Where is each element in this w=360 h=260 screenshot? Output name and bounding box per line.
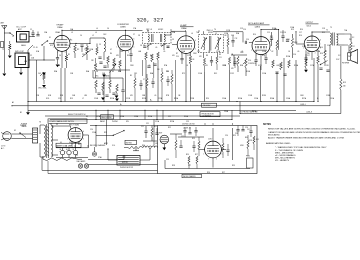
svg-text:C15: C15 xyxy=(279,65,282,67)
svg-text:T6: T6 xyxy=(39,122,41,124)
svg-text:117L7: 117L7 xyxy=(208,139,212,141)
svg-text:C4B: C4B xyxy=(72,95,75,97)
svg-text:R6: R6 xyxy=(150,55,152,57)
svg-text:R19: R19 xyxy=(70,98,73,100)
svg-text:R4: R4 xyxy=(110,53,112,55)
svg-text:R22B: R22B xyxy=(142,98,146,100)
svg-text:.005: .005 xyxy=(276,65,279,67)
svg-text:R23: R23 xyxy=(192,138,195,140)
svg-text:C11: C11 xyxy=(219,57,222,59)
svg-text:470: 470 xyxy=(172,55,175,57)
svg-text:150: 150 xyxy=(308,51,311,53)
svg-text:R7B: R7B xyxy=(166,95,169,97)
svg-text:B+: B+ xyxy=(120,104,122,106)
svg-text:R5: R5 xyxy=(127,55,129,57)
svg-text:R11: R11 xyxy=(262,55,265,57)
svg-text:47: 47 xyxy=(110,49,112,51)
svg-text:C30 R31 C31 R32: C30 R31 C31 R32 xyxy=(182,124,195,126)
svg-text:C15: C15 xyxy=(267,32,270,34)
svg-text:220: 220 xyxy=(82,54,85,56)
svg-text:L2: L2 xyxy=(92,35,94,37)
svg-text:CONTROL: CONTROL xyxy=(248,63,256,65)
svg-text:POWER: POWER xyxy=(20,125,27,127)
svg-text:C7: C7 xyxy=(143,79,145,81)
svg-text:C19: C19 xyxy=(58,98,61,100)
svg-text:R17: R17 xyxy=(324,51,327,53)
svg-text:L3: L3 xyxy=(71,32,73,34)
svg-text:C8B: C8B xyxy=(142,95,145,97)
svg-text:B.C. LOOP: B.C. LOOP xyxy=(17,26,27,28)
svg-text:C17: C17 xyxy=(299,32,302,34)
svg-text:C27: C27 xyxy=(188,165,191,167)
svg-text:C13: C13 xyxy=(240,28,243,30)
svg-text:R28: R28 xyxy=(172,165,175,167)
svg-text:.05: .05 xyxy=(154,95,156,97)
svg-text:C18: C18 xyxy=(322,28,325,30)
svg-text:455KC: 455KC xyxy=(158,29,164,31)
svg-text:C21: C21 xyxy=(141,126,144,128)
svg-text:40: 40 xyxy=(69,142,71,144)
svg-text:INDICATED.: INDICATED. xyxy=(268,134,281,137)
svg-text:R29: R29 xyxy=(232,165,235,167)
svg-text:68: 68 xyxy=(193,59,195,61)
svg-text:R21: R21 xyxy=(104,132,107,134)
svg-text:R14: R14 xyxy=(300,29,303,31)
svg-text:C9B: C9B xyxy=(166,71,169,73)
svg-text:R11B: R11B xyxy=(262,95,266,97)
svg-text:R12: R12 xyxy=(270,36,273,38)
svg-text:VOL: VOL xyxy=(112,145,115,147)
svg-text:R7: R7 xyxy=(176,53,178,55)
svg-text:.05: .05 xyxy=(297,51,299,53)
svg-text:C2B: C2B xyxy=(36,95,39,97)
svg-text:C21B: C21B xyxy=(126,98,130,100)
svg-text:R5: R5 xyxy=(130,75,132,77)
svg-text:1ST I-F: 1ST I-F xyxy=(146,29,153,31)
svg-text:C14: C14 xyxy=(246,39,249,41)
svg-text:C32: C32 xyxy=(247,129,250,131)
svg-text:.05: .05 xyxy=(155,47,157,49)
svg-text:C6B: C6B xyxy=(102,73,105,75)
svg-text:S1B: S1B xyxy=(48,95,51,97)
svg-text:326, 327: 326, 327 xyxy=(137,16,164,23)
svg-text:C12: C12 xyxy=(235,38,238,40)
svg-text:C25: C25 xyxy=(166,159,169,161)
svg-text:ABBREVIATIONS USED:: ABBREVIATIONS USED: xyxy=(266,142,291,145)
svg-text:C29: C29 xyxy=(168,116,171,118)
svg-text:S2: S2 xyxy=(52,127,54,129)
svg-text:C17: C17 xyxy=(307,55,310,57)
svg-text:L3B: L3B xyxy=(84,95,87,97)
svg-text:A.C.: A.C. xyxy=(1,147,5,150)
svg-text:PM SPKR: PM SPKR xyxy=(342,63,350,65)
svg-text:VOL: VOL xyxy=(248,60,251,62)
svg-text:MOTOR: MOTOR xyxy=(122,162,128,164)
svg-text:R13: R13 xyxy=(291,29,294,31)
svg-text:R2B: R2B xyxy=(60,95,63,97)
svg-text:C16: C16 xyxy=(283,32,286,34)
svg-text:C28: C28 xyxy=(249,140,252,142)
svg-text:220: 220 xyxy=(157,69,160,71)
svg-text:PHONO MOTOR: PHONO MOTOR xyxy=(120,167,134,169)
svg-text:C1: C1 xyxy=(30,29,32,31)
svg-text:12BA6: 12BA6 xyxy=(57,26,63,29)
svg-text:12BA6: 12BA6 xyxy=(181,27,187,30)
svg-text:C20: C20 xyxy=(90,129,93,131)
svg-text:RESISTOR VALUES ARE GIVEN IN O: RESISTOR VALUES ARE GIVEN IN OHMS UNLESS… xyxy=(268,127,356,130)
svg-text:A+: A+ xyxy=(150,99,152,102)
svg-text:C23: C23 xyxy=(186,121,189,123)
svg-text:C18B: C18B xyxy=(326,95,330,97)
svg-text:C9: C9 xyxy=(172,39,174,41)
svg-text:S1: S1 xyxy=(49,37,51,39)
svg-text:LT SWITCH: LT SWITCH xyxy=(203,116,212,118)
svg-text:RECT 35W4: RECT 35W4 xyxy=(69,125,79,127)
svg-text:C14: C14 xyxy=(243,29,246,31)
svg-text:C2: C2 xyxy=(30,55,32,57)
svg-text:L20: L20 xyxy=(155,143,158,145)
svg-text:L-801-S: L-801-S xyxy=(306,112,313,114)
svg-text:R22: R22 xyxy=(154,126,157,128)
svg-text:C28: C28 xyxy=(235,133,238,135)
svg-text:AUDIO TRANSFORMER WINDING RESI: AUDIO TRANSFORMER WINDING RESISTANCES AR… xyxy=(268,137,345,140)
svg-text:R16: R16 xyxy=(320,53,323,55)
svg-text:* - WAFER-LINED TOP DIAL DESI: * - WAFER-LINED TOP DIAL DESIGNATIONS ON… xyxy=(275,146,327,149)
svg-text:22K: 22K xyxy=(91,60,94,62)
svg-text:C21: C21 xyxy=(146,123,149,125)
svg-text:L-801-L: L-801-L xyxy=(300,104,306,106)
svg-text:C23B: C23B xyxy=(190,98,194,100)
svg-text:T5: T5 xyxy=(326,30,328,32)
svg-text:MOT: MOT xyxy=(159,133,162,135)
svg-text:50C5: 50C5 xyxy=(307,25,311,27)
svg-text:R2: R2 xyxy=(77,49,79,51)
svg-text:20: 20 xyxy=(73,149,75,151)
svg-text:R22: R22 xyxy=(168,127,171,129)
svg-text:R27: R27 xyxy=(195,154,198,156)
svg-text:R18: R18 xyxy=(343,82,346,84)
svg-text:L4: L4 xyxy=(95,32,97,34)
svg-text:R9B: R9B xyxy=(240,65,243,67)
svg-text:C6: C6 xyxy=(96,71,98,73)
svg-text:L5: L5 xyxy=(215,33,217,35)
svg-text:SW LOOP: SW LOOP xyxy=(15,51,25,53)
svg-text:C18: C18 xyxy=(327,45,330,47)
svg-text:C16: C16 xyxy=(293,54,296,56)
svg-text:C22: C22 xyxy=(181,136,184,138)
svg-text:3.2: 3.2 xyxy=(338,55,340,57)
svg-text:R27: R27 xyxy=(222,172,225,174)
svg-text:R26: R26 xyxy=(207,172,210,174)
svg-text:C20B: C20B xyxy=(94,98,98,100)
svg-text:C8: C8 xyxy=(140,45,142,47)
svg-text:455KC: 455KC xyxy=(208,32,214,34)
svg-text:PHONO MOTOR: PHONO MOTOR xyxy=(202,113,215,115)
svg-text:C2 .05: C2 .05 xyxy=(33,47,38,49)
svg-text:560: 560 xyxy=(343,86,346,88)
svg-text:40: 40 xyxy=(60,142,62,144)
svg-text:C24: C24 xyxy=(225,135,228,137)
svg-text:PHONO: PHONO xyxy=(112,121,119,123)
svg-text:TP: TP xyxy=(2,49,4,51)
svg-text:R8: R8 xyxy=(225,35,227,37)
svg-text:C10: C10 xyxy=(176,56,179,58)
svg-text:K - THOUSANDS OF OHMS: K - THOUSANDS OF OHMS xyxy=(275,149,303,152)
svg-text:HY - HENRYS: HY - HENRYS xyxy=(275,160,290,162)
svg-text:40: 40 xyxy=(66,149,68,151)
svg-text:uF - MICROFARADS: uF - MICROFARADS xyxy=(275,154,296,157)
svg-text:S2: S2 xyxy=(14,130,16,132)
svg-text:R14: R14 xyxy=(299,35,302,37)
svg-text:R10: R10 xyxy=(253,34,256,36)
svg-text:C12: C12 xyxy=(231,35,234,37)
svg-text:CAPACITOR VALUES ARE GIVEN IN: CAPACITOR VALUES ARE GIVEN IN MICRO-MICR… xyxy=(268,131,360,134)
svg-text:R8: R8 xyxy=(206,55,208,57)
svg-text:40: 40 xyxy=(60,149,62,151)
svg-text:.05: .05 xyxy=(148,65,150,67)
svg-text:47K: 47K xyxy=(231,68,234,70)
svg-text:R25: R25 xyxy=(233,135,236,137)
svg-text:C8: C8 xyxy=(138,35,140,37)
svg-text:C4: C4 xyxy=(80,35,82,37)
svg-text:47K: 47K xyxy=(199,56,202,58)
svg-text:C5B: C5B xyxy=(70,73,73,75)
svg-text:C17B: C17B xyxy=(302,46,306,48)
svg-text:OSC COIL: OSC COIL xyxy=(38,88,47,90)
svg-text:R9: R9 xyxy=(219,54,221,56)
svg-text:TW & BLK: TW & BLK xyxy=(203,105,211,107)
svg-text:T3: T3 xyxy=(143,45,145,47)
svg-text:MUTING: MUTING xyxy=(126,142,133,144)
svg-text:C4: C4 xyxy=(59,55,61,57)
svg-text:C6: C6 xyxy=(107,28,109,30)
svg-text:L6: L6 xyxy=(191,33,193,35)
svg-text:.01: .01 xyxy=(241,51,243,53)
svg-text:120: 120 xyxy=(326,65,329,67)
svg-text:.05: .05 xyxy=(163,51,165,53)
svg-text:L7: L7 xyxy=(82,98,84,100)
svg-text:R15: R15 xyxy=(322,32,325,34)
svg-text:L4: L4 xyxy=(96,28,98,30)
svg-text:C5: C5 xyxy=(99,44,101,46)
svg-text:12AV6: 12AV6 xyxy=(255,25,260,28)
svg-text:C13B: C13B xyxy=(222,65,226,67)
svg-text:R1: R1 xyxy=(68,54,70,56)
svg-text:C14B: C14B xyxy=(248,95,252,97)
svg-text:3.2: 3.2 xyxy=(353,46,355,48)
svg-text:C12B: C12B xyxy=(226,30,230,32)
svg-text:SELECTOR SWITCH: SELECTOR SWITCH xyxy=(68,114,86,116)
svg-text:L1: L1 xyxy=(12,36,14,38)
svg-text:S3: S3 xyxy=(86,116,88,118)
svg-text:R30: R30 xyxy=(245,137,248,139)
svg-text:T5: T5 xyxy=(330,27,332,29)
svg-text:C10: C10 xyxy=(187,55,190,57)
svg-text:C26: C26 xyxy=(245,127,248,129)
svg-text:C9: C9 xyxy=(167,47,169,49)
svg-text:R33: R33 xyxy=(256,139,259,141)
svg-text:.02: .02 xyxy=(271,51,273,53)
svg-text:1.0: 1.0 xyxy=(67,45,69,47)
svg-text:R24: R24 xyxy=(206,98,209,100)
svg-text:C7: C7 xyxy=(133,34,135,36)
svg-text:R26: R26 xyxy=(186,154,189,156)
svg-text:12BE6: 12BE6 xyxy=(120,27,126,29)
svg-text:B1: B1 xyxy=(20,112,22,114)
svg-text:R20: R20 xyxy=(142,145,145,147)
svg-text:T4: T4 xyxy=(214,29,216,31)
svg-text:R3: R3 xyxy=(112,71,114,73)
svg-text:NOTES: NOTES xyxy=(263,124,271,126)
svg-text:.02 47K .05: .02 47K .05 xyxy=(183,128,191,130)
